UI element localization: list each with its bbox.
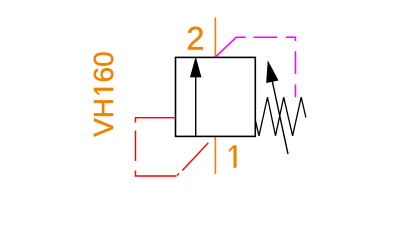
label VH160	[88, 51, 119, 137]
spring adjust arrowhead	[267, 62, 278, 83]
drain line dash (red vertical)	[135, 131, 137, 162]
valve body box	[176, 57, 256, 136]
flow path arrowhead	[190, 58, 201, 77]
port line 2 (top orange wire)	[214, 18, 216, 58]
pilot line dash (magenta vertical)	[295, 51, 297, 74]
svg-text:60: 60	[88, 51, 119, 82]
pilot line solid segment (magenta diagonal)	[216, 37, 246, 57]
drain line corner (red bottom)	[136, 171, 177, 177]
spring	[255, 97, 306, 136]
drain line solid segment (red horizontal)	[136, 117, 176, 119]
pilot line dash (magenta horizontal)	[254, 36, 278, 38]
flow path arrow shaft	[195, 75, 197, 136]
svg-text:2: 2	[186, 20, 204, 56]
pilot line dash end (magenta vertical)	[295, 85, 297, 98]
spring adjust arrow shaft	[272, 81, 288, 154]
drain line tick (red)	[177, 174, 179, 176]
svg-text:VH: VH	[88, 98, 119, 137]
drain line diagonal (red)	[182, 143, 208, 171]
drain line corner dash (red)	[135, 117, 137, 122]
port line 1 (bottom orange wire)	[214, 136, 216, 174]
port label 1	[229, 145, 237, 168]
pilot line corner dash (magenta)	[286, 37, 296, 41]
